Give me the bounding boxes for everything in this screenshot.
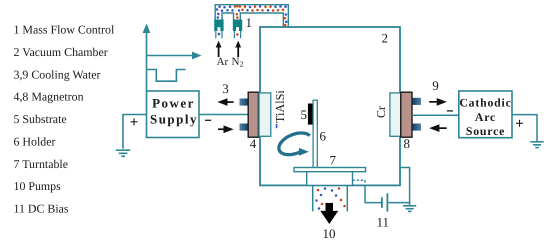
svg-text:10: 10 (323, 226, 336, 241)
svg-text:TiAlSi: TiAlSi (273, 90, 287, 123)
N2 inlet arrow (up) (235, 41, 241, 57)
ground (left) (116, 150, 130, 156)
svg-text:11: 11 (377, 215, 390, 230)
pump duct walls (313, 186, 348, 211)
svg-text:7 Turntable: 7 Turntable (14, 157, 69, 171)
gas manifold pipe outline (215, 5, 288, 27)
svg-text:11 DC Bias: 11 DC Bias (14, 202, 69, 216)
magnetron 4 body (248, 92, 258, 137)
target Cr plate (390, 93, 401, 136)
svg-text:5 Substrate: 5 Substrate (14, 112, 67, 126)
svg-text:6 Holder: 6 Holder (14, 134, 56, 148)
svg-text:8: 8 (404, 136, 411, 151)
battery 11 tall plate (386, 193, 388, 211)
holder rod 6 (313, 100, 317, 167)
svg-text:Ar: Ar (217, 56, 229, 68)
cooling water out arrow (left-pointing) (217, 98, 233, 106)
DC bias wire down (365, 186, 381, 203)
target TiAlSi plate (259, 93, 271, 136)
svg-text:4: 4 (250, 136, 257, 151)
wire PS left to ground (123, 115, 147, 149)
magnetron 8 body (401, 92, 412, 137)
cooling water in arrow (right-pointing) (218, 125, 234, 133)
svg-text:3,9 Cooling Water: 3,9 Cooling Water (14, 67, 101, 81)
DC bias dashed tap (353, 180, 366, 186)
ground (chamber right) (403, 206, 416, 212)
svg-text:N: N (232, 56, 240, 68)
svg-text:Source: Source (466, 124, 505, 138)
mass flow controller 1 (Ar) (214, 20, 223, 32)
battery 11 short plate (381, 197, 383, 208)
chamber ground wire (right) (400, 168, 410, 206)
svg-text:2 Vacuum Chamber: 2 Vacuum Chamber (14, 45, 108, 59)
mass flow controller 1 (N2) (233, 20, 242, 32)
legend text (14, 23, 115, 216)
plus sign (PS left) (131, 118, 138, 125)
vacuum chamber (2) (260, 27, 400, 185)
svg-text:4,8 Magnetron: 4,8 Magnetron (14, 90, 84, 104)
pipes below MFCs (216, 31, 241, 38)
svg-text:1 Mass Flow Control: 1 Mass Flow Control (14, 23, 115, 37)
svg-text:Cr: Cr (374, 106, 388, 118)
pulse waveform (147, 70, 186, 82)
rotation arrow (279, 133, 310, 155)
dots below MFCs (218, 33, 221, 36)
svg-text:2: 2 (240, 59, 244, 68)
power supply box (147, 91, 200, 138)
arc source ground wire (512, 115, 537, 141)
svg-text:Power: Power (152, 96, 195, 111)
minus sign (PS right) (205, 119, 211, 121)
svg-text:9: 9 (432, 78, 439, 93)
svg-text:6: 6 (320, 129, 327, 144)
pulse axis vertical (146, 30, 148, 91)
svg-text:10 Pumps: 10 Pumps (14, 179, 62, 193)
wire PS right to magnetron 4 (199, 114, 248, 116)
battery to ground wire (388, 202, 409, 204)
pump arrow (10) (320, 203, 338, 224)
svg-text:7: 7 (330, 153, 337, 168)
minus sign (arc source left) (447, 110, 453, 112)
svg-text:Arc: Arc (475, 110, 496, 124)
blue mark under TiAlSi (276, 124, 278, 128)
wire magnetron 8 to arc source (412, 114, 459, 116)
cathodic arc source box (459, 91, 512, 138)
svg-text:Cathodic: Cathodic (459, 96, 511, 110)
ground (arc source) (530, 142, 543, 148)
axis arrowhead right (192, 52, 202, 60)
cooling water arrow (left-pointing) (429, 124, 447, 132)
cooling water arrow (right-pointing) (429, 98, 447, 106)
turntable 7 plate (294, 168, 366, 172)
plus sign (arc source right) (516, 120, 523, 127)
svg-text:Supply: Supply (150, 112, 198, 127)
axis arrowhead up (143, 24, 151, 34)
substrate 5 (black) (308, 104, 313, 125)
gas dots in pipe (216, 5, 288, 26)
svg-text:5: 5 (301, 107, 308, 122)
pulse axis horizontal (147, 55, 195, 57)
svg-text:3: 3 (222, 81, 229, 96)
svg-text:2: 2 (382, 31, 389, 46)
svg-text:1: 1 (246, 15, 253, 30)
Ar inlet arrow (up) (216, 41, 222, 57)
pedestal (307, 172, 353, 186)
pumped gas dots (315, 187, 346, 210)
magnetron 8 water stubs (412, 98, 421, 105)
magnetron 4 water stubs (240, 99, 249, 106)
